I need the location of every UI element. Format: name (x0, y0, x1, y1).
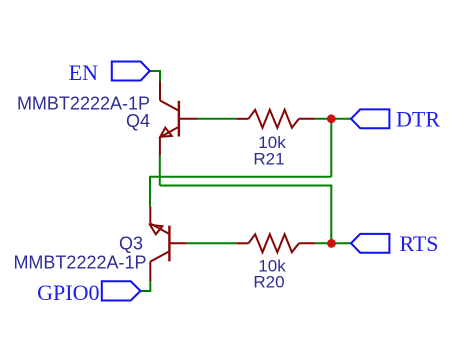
svg-text:Q3: Q3 (119, 234, 143, 254)
svg-text:MMBT2222A-1P: MMBT2222A-1P (13, 253, 146, 273)
wire DTR node down (330, 119, 332, 177)
wire GPIO0 port to Q3 collector (141, 281, 151, 291)
svg-text:EN: EN (69, 60, 98, 85)
wire R21 to DTR port (315, 118, 350, 120)
wire Q3 base to R20 (187, 242, 236, 244)
svg-text:DTR: DTR (396, 107, 440, 132)
wire R20 to RTS port (315, 242, 351, 244)
port RTS (351, 234, 389, 253)
wire EN port to Q4 collector (150, 71, 160, 82)
resistor R20 (236, 234, 315, 252)
wire Q4 emitter down (159, 155, 161, 186)
resistor R21 (236, 110, 315, 128)
port GPIO0 (102, 281, 141, 300)
svg-text:Q4: Q4 (126, 111, 150, 131)
transistor Q4 (160, 82, 197, 156)
port EN (112, 62, 150, 81)
port DTR (351, 109, 389, 128)
wire crossover lower (Q4 emitter to RTS node) (160, 186, 331, 244)
transistor Q3 (150, 206, 187, 281)
svg-text:R20: R20 (253, 273, 284, 292)
junction node RTS (327, 239, 336, 248)
svg-text:R21: R21 (253, 150, 284, 169)
svg-text:GPIO0: GPIO0 (37, 280, 99, 305)
wire Q4 base to R21 (197, 118, 236, 120)
wire crossover upper (DTR node to Q3 emitter) (150, 177, 331, 207)
svg-text:RTS: RTS (400, 231, 439, 256)
junction node DTR (327, 114, 336, 123)
